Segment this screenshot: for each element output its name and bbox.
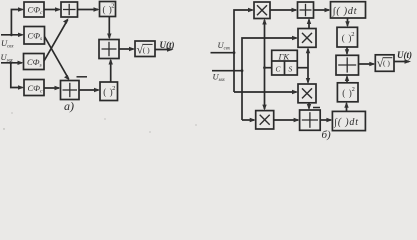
wire adder2 to squarer2 (A) [79,89,99,91]
square-root box (A) [135,41,155,57]
wire middle adder to sqrt (B) [359,63,374,65]
matched filter box СФc (top, A) [24,2,44,17]
svg-text:а): а) [64,99,74,113]
matched filter box СФs (second, A) [24,27,45,45]
wire input1 lower branch to X3 (B) [234,91,297,93]
junction dot input2 (B) [241,69,244,72]
arrow into middle adder top (A) [107,34,111,40]
svg-text:U(t): U(t) [397,50,412,60]
matched filter box СФs (third, A) [24,54,45,70]
integrator box bottom (B) [332,111,365,130]
junction dot input1 (A) [10,33,13,36]
arrow into integrator2 (B) [326,118,332,122]
wire X3 down to adder2 top (B) [308,103,310,109]
wire branch up to СФc1 (A) [11,10,22,35]
ГК divider vertical [284,61,286,75]
arrow into СФs2 (A) [18,33,24,37]
arrow into sqrt box (A) [129,47,135,51]
arrow into СФs3 (A) [18,61,24,65]
labels diagram a [1,3,175,114]
wire X4 to adder2 (B) [274,119,298,121]
middle adder box (B) [336,55,359,75]
X symbol multiplier3 (B) [302,88,312,98]
plus sign adder2 (B) [302,112,318,128]
arrow into adder2 top (A) [64,75,70,80]
multiplier box X2 (B) [298,29,316,48]
plus sign adder1 (A) [63,4,76,15]
plus sign adder2 (A) [63,83,78,97]
multiplier box X4 (B bottom-left) [256,111,274,129]
arrow into middle adder bottom (A) [109,59,113,65]
wire branch down to СФc4 (A) [11,63,23,88]
arrow into adder1 bottom (B) [307,18,311,24]
wire squarer1 down to middle adder (B) [346,47,348,54]
sqrt content (A) [137,43,153,57]
cosine reference bus C (B) [264,20,266,109]
svg-text:СФs: СФs [28,31,43,43]
diagonal wire СФs2 to adder2 top (A) [45,37,69,80]
middle adder box (A) [99,40,119,59]
adder box bottom (A) [61,81,80,100]
arrow into sqrt box (B) [369,62,375,66]
wire squarer2 up to middle adder bottom (B) [346,77,348,83]
wire middle adder to sqrt (A) [119,48,134,50]
matched filter box СФc (bottom, A) [24,80,44,96]
junction dot C (B) [263,66,266,69]
paper background [0,0,417,141]
ГК divider horizontal [272,60,298,62]
svg-text:СФs: СФs [27,57,42,69]
output wire U(t) (B) [394,61,409,63]
svg-text:∫( )dt: ∫( )dt [332,6,357,17]
wire X2 up to adder1 bottom (B) [308,20,310,29]
squarer box bottom (B) [337,83,358,102]
svg-text:∫( )dt: ∫( )dt [333,117,358,128]
arrow S down into X3 top (B) [306,78,310,84]
arrow into adder1 (A) [55,7,61,11]
arrow into middle adder bottom (B) [345,75,349,81]
wire input1 Uc (B) [211,52,235,54]
adder box top (A) [61,2,78,17]
wire adder2 to integrator2 (B) [320,119,331,121]
sqrt content (B) [377,56,393,70]
sine reference bus S (B) [307,49,309,83]
svg-text:б): б) [322,129,332,141]
labels diagram b [213,4,413,141]
svg-text:( ): ( ) [383,59,390,68]
reference generator box ГК (B) [272,50,298,75]
arrow S up into X2 bottom (B) [306,47,310,53]
wire adder1 to squarer1 (A) [78,9,99,11]
arrow into adder2 (B) [294,118,300,122]
arrow into middle adder top (B) [345,49,349,55]
vertical bus input2 (B) [242,38,297,120]
arrow C up into X1 bottom (B) [262,19,266,25]
output wire U(t) (A) [155,49,172,51]
svg-text:U(t): U(t) [160,40,175,50]
X symbol multiplier2 (B) [302,33,312,43]
arrow into adder2 (A) [55,86,61,90]
arrow into squarer2 bottom (B) [344,102,348,108]
plus sign adder1 (B) [300,4,312,16]
wire input2 Us to СФs3 (A) [1,62,22,64]
arrow into adder2 top (B) [307,104,311,110]
multiplier box X3 (B) [298,84,316,103]
multiplier box X1 (B top-left) [254,2,270,19]
wire adder1 to integrator1 (B) [314,9,330,11]
svg-text:ГК: ГК [278,51,291,61]
C connector to ГК (B) [265,67,272,69]
arrow into СФc4 (A) [18,85,24,89]
X symbol multiplier1 (B) [257,5,267,15]
arrow into integrator1 (B) [325,8,331,12]
X symbol multiplier4 (B) [260,115,270,125]
arrow into X1 (B) [248,8,254,12]
arrow into squarer1 top (B) [345,21,349,27]
squarer box bottom (A) [100,82,118,101]
wire integrator1 down to squarer1 (B) [347,18,349,26]
wire squarer1 down to middle adder (A) [108,17,110,39]
plus sign middle adder (A) [102,42,117,56]
S connector to ГК (B) [297,67,308,69]
minus sign above adder2 (B) [313,107,320,109]
wire squarer2 up to middle adder (A) [110,60,112,82]
faint scan specks [3,112,196,132]
wire input2 Us (B) [212,70,242,72]
svg-text:( ): ( ) [143,45,150,54]
wire integrator2 up to squarer2 (B) [346,103,348,111]
squarer box top (A) [100,2,116,17]
arrow into X4 (B) [250,118,256,122]
wire input2 lower branch to X4 (B) [242,119,254,121]
wire input1 Uc to СФs2 (A) [1,34,23,36]
plus sign middle adder (B) [338,57,356,72]
junction dot input2 (A) [9,61,12,64]
wire X1 to adder1 (B) [270,9,296,11]
adder box bottom (B) [300,110,321,130]
svg-text:S: S [289,65,293,74]
adder box top (B) [298,2,314,18]
vertical bus input1 (B) [234,10,253,92]
squarer box top (B) [337,27,358,47]
arrow into adder1 bottom (A) [63,18,69,23]
integrator box top (B) [331,2,366,18]
junction dot input1 (B) [233,51,236,54]
arrow C down into X4 top (B) [262,105,266,111]
wire СФc4 to adder2 (A) [44,87,59,89]
arrow into squarer2 (A) [94,88,100,92]
arrow into X3 (B) [292,90,298,94]
arrow into adder1 (B) [292,8,298,12]
minus sign above adder2 (A) [77,76,88,78]
wire СФc1 to adder1 (A) [44,9,60,11]
output arrowhead (A) [167,47,174,52]
square-root box (B) [375,55,394,72]
arrow into СФc1 (A) [18,7,24,11]
arrow into squarer1 (A) [94,7,100,11]
output arrowhead (B) [405,59,412,64]
diagonal wire СФs3 to adder1 bottom (A) [44,20,68,61]
arrow into X2 (B) [292,36,298,40]
